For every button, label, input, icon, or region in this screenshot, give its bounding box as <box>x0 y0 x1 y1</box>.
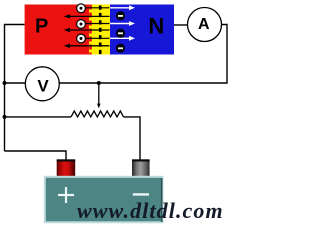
wire from P block to left rail and down <box>5 25 25 152</box>
hole 1 <box>77 4 86 13</box>
black dashed junction line <box>99 6 102 55</box>
hole-row connector line 2 <box>86 23 110 25</box>
electron 1 <box>116 11 125 20</box>
battery positive terminal (red post) <box>57 159 75 177</box>
wiper arrowhead <box>97 104 101 109</box>
wire left rail to rheostat left end <box>5 116 72 118</box>
rheostat wiper lead <box>98 83 100 106</box>
junction dot wiper <box>97 81 101 85</box>
battery body <box>45 177 163 223</box>
svg-text:P: P <box>35 16 48 38</box>
electron arrow 1 (white, rightward) <box>110 5 135 10</box>
electron arrow 2 <box>110 21 135 26</box>
wire N block to ammeter <box>174 24 188 26</box>
wire from left rail to battery positive terminal <box>5 151 67 161</box>
junction dot left-rheostat <box>3 115 7 119</box>
junction dot left-voltmeter <box>3 81 7 85</box>
red dashed boundary line <box>89 5 92 55</box>
hole 3 <box>77 34 86 43</box>
wire rheostat right end down to battery negative terminal <box>124 117 140 161</box>
voltmeter V <box>25 67 59 101</box>
hole-row connector line 3 <box>86 37 110 39</box>
electron 3 <box>116 44 125 53</box>
svg-text:N: N <box>148 14 164 39</box>
hole-row connector line 1 (black, across depletion) <box>86 7 110 9</box>
hole 2 <box>77 20 86 29</box>
wire voltmeter right to ammeter right (long horizontal + right rail) <box>60 25 228 84</box>
resistor R (rheostat zigzag) <box>71 111 124 117</box>
hole arrow 2 <box>64 28 110 32</box>
ammeter A <box>188 8 222 42</box>
battery minus sign <box>133 193 149 195</box>
N block (n-type region) <box>110 5 174 55</box>
svg-text:V: V <box>37 77 49 96</box>
svg-text:www.dltdl.com: www.dltdl.com <box>77 198 224 223</box>
battery negative terminal (gray post) <box>132 159 150 177</box>
wire voltmeter left segment <box>5 82 26 84</box>
P block (p-type region) <box>25 5 89 55</box>
electron arrow 3 <box>110 36 135 41</box>
battery plus sign <box>58 187 74 203</box>
hole arrow 1 (black, leftward) <box>64 14 110 18</box>
depletion region (yellow) <box>89 5 110 55</box>
hole arrow 3 <box>64 44 110 48</box>
svg-text:A: A <box>198 16 210 33</box>
electron 2 <box>116 29 125 38</box>
